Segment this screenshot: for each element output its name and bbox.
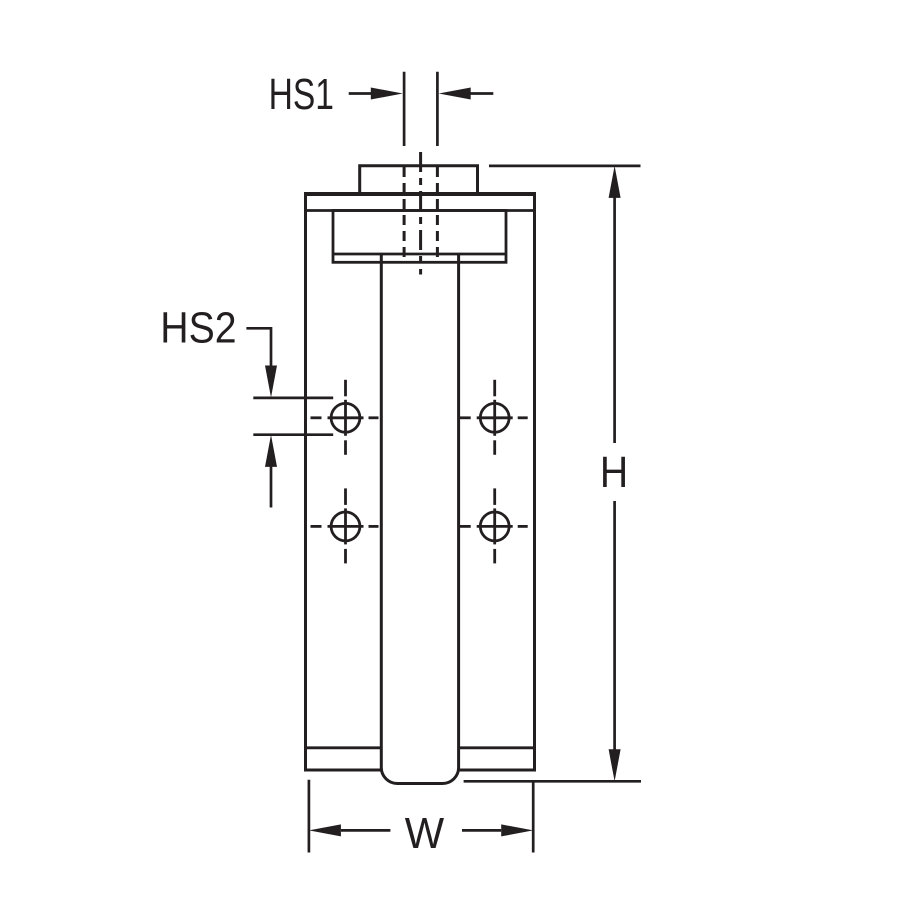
W left dimension shaft bbox=[341, 829, 391, 832]
thread hidden line right bbox=[436, 167, 439, 263]
top mounting tab bbox=[360, 166, 478, 194]
inner block lower line bbox=[333, 253, 506, 256]
W right arrow bbox=[501, 824, 533, 836]
H up arrow bbox=[609, 166, 621, 198]
HS2 upper extension line bbox=[253, 397, 333, 400]
H down arrow bbox=[609, 749, 621, 781]
thread hidden line left bbox=[403, 167, 406, 263]
hole mark bottom-right bbox=[460, 488, 528, 563]
thread centerline bbox=[419, 152, 422, 275]
body outer rectangle bbox=[306, 194, 535, 770]
slot white fill bbox=[381, 254, 458, 784]
HS2 down arrow bbox=[265, 366, 277, 398]
HS1 left arrow bbox=[371, 88, 403, 100]
H upper dimension shaft bbox=[613, 197, 616, 443]
H top extension line bbox=[489, 165, 641, 168]
svg-text:W: W bbox=[405, 809, 445, 858]
HS1 left dimension shaft bbox=[349, 92, 372, 95]
svg-text:HS2: HS2 bbox=[160, 302, 236, 352]
W left extension line bbox=[308, 780, 311, 853]
body top edge (thick) bbox=[304, 192, 536, 196]
H lower dimension shaft bbox=[613, 501, 616, 751]
inner block rectangle bbox=[333, 211, 506, 263]
hole mark bottom-left bbox=[311, 488, 379, 563]
HS2 up arrow bbox=[265, 435, 277, 467]
hole mark top-left bbox=[311, 380, 379, 455]
HS2 lower extension line bbox=[253, 433, 333, 436]
HS1 left extension line bbox=[403, 72, 406, 146]
H bottom extension line bbox=[464, 780, 641, 783]
W right dimension shaft bbox=[462, 829, 501, 832]
W left arrow bbox=[309, 824, 341, 836]
W right extension line bbox=[532, 781, 535, 853]
HS2 lower arrow shaft bbox=[270, 466, 273, 508]
svg-text:H: H bbox=[600, 447, 628, 497]
bottom band line bbox=[306, 746, 535, 749]
hole mark top-right bbox=[460, 380, 528, 455]
HS1 right dimension shaft bbox=[469, 92, 493, 95]
HS1 right extension line bbox=[436, 72, 439, 146]
svg-text:HS1: HS1 bbox=[269, 71, 334, 119]
HS2 leader line bbox=[246, 328, 271, 367]
slot outline bbox=[381, 254, 458, 784]
HS1 right arrow bbox=[439, 88, 471, 100]
top band line bbox=[306, 209, 535, 212]
